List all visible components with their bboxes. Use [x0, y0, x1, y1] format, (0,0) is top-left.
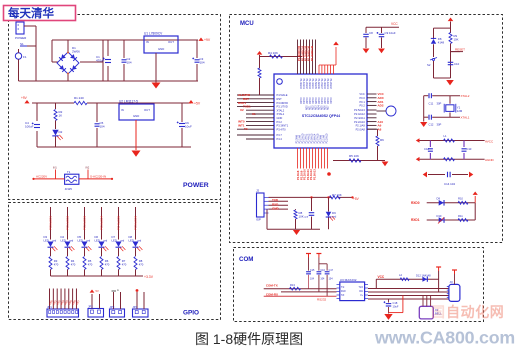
svg-text:GND: GND [158, 47, 164, 51]
svg-text:每天清华: 每天清华 [8, 6, 54, 20]
svg-text:JP3: JP3 [110, 305, 115, 309]
svg-text:X2: X2 [240, 108, 244, 112]
svg-text:www.CA800.com: www.CA800.com [374, 328, 515, 348]
svg-text:AC220V: AC220V [36, 175, 47, 179]
svg-text:4148: 4148 [438, 40, 445, 44]
svg-text:XTAL2: XTAL2 [277, 108, 285, 112]
svg-text:图 1-8硬件原理图: 图 1-8硬件原理图 [195, 331, 303, 347]
svg-text:470: 470 [71, 263, 76, 267]
svg-text:P4.4: P4.4 [277, 137, 283, 141]
svg-text:+9V: +9V [204, 38, 211, 42]
svg-text:T0: T0 [244, 127, 248, 131]
svg-text:P2.3/A11: P2.3/A11 [354, 116, 365, 120]
svg-text:IN2: IN2 [86, 167, 90, 170]
svg-text:CEX3: CEX3 [308, 98, 311, 105]
svg-text:P4.5/ALE: P4.5/ALE [277, 93, 288, 97]
svg-text:T1: T1 [67, 170, 71, 174]
svg-text:P0.2: P0.2 [359, 104, 365, 108]
svg-text:PC1/LED2: PC1/LED2 [66, 215, 70, 230]
svg-text:CEX1: CEX1 [320, 98, 323, 105]
svg-text:COM: COM [239, 256, 253, 263]
svg-text:P1.1/AD1: P1.1/AD1 [302, 79, 305, 90]
svg-text:自动化网: 自动化网 [446, 304, 504, 320]
svg-text:RXD1: RXD1 [411, 218, 420, 222]
svg-text:CEX4: CEX4 [329, 98, 332, 105]
svg-text:RXD0: RXD0 [411, 201, 420, 205]
svg-text:C7: C7 [305, 215, 309, 219]
svg-text:OUT: OUT [144, 108, 150, 112]
svg-text:10uF: 10uF [185, 125, 192, 129]
svg-text:A: A [117, 288, 119, 292]
svg-text:R7 10K: R7 10K [332, 193, 342, 197]
svg-text:D10: D10 [437, 214, 442, 218]
svg-text:10K: 10K [299, 214, 304, 218]
svg-text:L2: L2 [399, 273, 402, 277]
svg-text:CEX0: CEX0 [317, 98, 320, 105]
svg-text:C11: C11 [429, 102, 434, 106]
svg-text:R11: R11 [458, 214, 463, 218]
svg-text:104: 104 [100, 125, 105, 129]
svg-text:U1 L7809CV: U1 L7809CV [144, 32, 163, 36]
svg-text:AD1: AD1 [309, 105, 312, 110]
svg-text:P1.1/AD1: P1.1/AD1 [326, 79, 329, 90]
svg-text:R4 10K: R4 10K [268, 51, 278, 55]
svg-text:C15: C15 [310, 269, 315, 272]
svg-text:AD5: AD5 [321, 105, 324, 110]
svg-text:R1O: R1O [341, 291, 346, 293]
svg-text:470: 470 [122, 263, 127, 267]
svg-text:VCC: VCC [359, 92, 365, 96]
svg-text:C17: C17 [329, 269, 334, 272]
svg-text:J3: J3 [450, 280, 453, 284]
svg-text:X1: X1 [252, 112, 256, 116]
svg-text:PC5/LED6: PC5/LED6 [134, 215, 138, 230]
svg-text:P2.0/A8: P2.0/A8 [356, 127, 366, 131]
svg-text:GND: GND [272, 207, 280, 211]
svg-text:470: 470 [105, 263, 110, 267]
svg-text:R1 240: R1 240 [74, 96, 84, 100]
svg-text:IN: IN [146, 40, 149, 44]
svg-text:100uF: 100uF [25, 125, 34, 129]
svg-text:104: 104 [200, 61, 205, 65]
svg-text:VCC: VCC [378, 275, 385, 279]
svg-text:ISP: ISP [256, 218, 261, 222]
svg-text:P1.6/AD6: P1.6/AD6 [317, 79, 320, 90]
svg-text:S1: S1 [20, 42, 24, 46]
svg-text:R10: R10 [458, 197, 463, 201]
svg-text:C12: C12 [424, 147, 429, 151]
svg-text:IN1: IN1 [53, 167, 57, 170]
svg-text:IN: IN [121, 108, 124, 112]
svg-text:P3.4/T0: P3.4/T0 [277, 127, 287, 131]
svg-text:XTAL2: XTAL2 [461, 94, 470, 98]
svg-text:AD2: AD2 [378, 104, 384, 108]
svg-text:XTAL1: XTAL1 [461, 116, 470, 120]
svg-text:CEX5: CEX5 [314, 98, 317, 105]
svg-text:AVCC: AVCC [485, 140, 494, 144]
svg-text:C14 104: C14 104 [444, 182, 455, 186]
svg-text:2W06: 2W06 [72, 50, 80, 54]
svg-text:MCU: MCU [240, 21, 254, 27]
svg-text:AD2: AD2 [312, 105, 315, 110]
svg-text:CEX1: CEX1 [302, 98, 305, 105]
svg-text:1K: 1K [59, 114, 63, 118]
svg-text:P1.5/AD5: P1.5/AD5 [314, 79, 317, 90]
svg-text:F1: F1 [23, 55, 27, 59]
svg-text:CEX3: CEX3 [326, 98, 329, 105]
svg-text:P0.0: P0.0 [359, 96, 365, 100]
svg-text:JP2: JP2 [88, 305, 93, 309]
svg-text:OUT: OUT [168, 40, 174, 44]
svg-text:AD6: AD6 [324, 105, 327, 110]
svg-text:RS232: RS232 [317, 298, 327, 302]
svg-text:COM-TX: COM-TX [266, 284, 278, 288]
svg-text:P1.2/AD2: P1.2/AD2 [329, 79, 332, 90]
svg-text:AGND: AGND [485, 158, 495, 162]
svg-text:AD7: AD7 [327, 105, 330, 110]
svg-text:P3.7: P3.7 [277, 133, 283, 137]
svg-text:CEX2: CEX2 [305, 98, 308, 105]
svg-text:P2.4/A12: P2.4/A12 [354, 112, 365, 116]
svg-text:P1.0/AD0: P1.0/AD0 [323, 79, 326, 90]
svg-text:R6: R6 [380, 138, 384, 142]
svg-text:U2 LM1117-5: U2 LM1117-5 [119, 100, 138, 104]
svg-text:C10: C10 [454, 62, 460, 66]
svg-text:GPIO: GPIO [183, 310, 199, 317]
svg-text:104: 104 [310, 278, 315, 281]
svg-text:TXD1: TXD1 [243, 105, 251, 109]
svg-text:PC4/LED5: PC4/LED5 [117, 215, 121, 230]
svg-text:P2.2/A10: P2.2/A10 [354, 120, 365, 124]
svg-text:30P: 30P [437, 123, 442, 127]
svg-text:12M: 12M [457, 109, 463, 113]
svg-text:D9: D9 [437, 197, 441, 201]
svg-text:30P: 30P [437, 102, 442, 106]
svg-text:+5V: +5V [353, 197, 360, 201]
svg-text:104: 104 [329, 278, 334, 281]
svg-text:10K: 10K [454, 38, 459, 42]
svg-text:JP1: JP1 [47, 305, 52, 309]
svg-text:AD3: AD3 [315, 105, 318, 110]
svg-text:T1O: T1O [359, 287, 364, 289]
svg-text:P2.2/A10: P2.2/A10 [325, 133, 328, 144]
svg-text:AD4: AD4 [318, 105, 321, 110]
svg-text:C8: C8 [369, 31, 373, 35]
svg-text:C9 10uF: C9 10uF [385, 31, 396, 35]
svg-text:P3.3/INT1: P3.3/INT1 [277, 124, 289, 128]
svg-text:P1.4/AD4: P1.4/AD4 [311, 79, 314, 90]
svg-text:S2: S2 [427, 63, 431, 67]
svg-text:4N25: 4N25 [65, 187, 73, 191]
svg-text:GND: GND [277, 116, 283, 120]
svg-text:P1.3/AD3: P1.3/AD3 [308, 79, 311, 90]
svg-text:P0.1: P0.1 [359, 100, 365, 104]
svg-text:104: 104 [127, 61, 132, 65]
svg-text:P3.2: P3.2 [277, 120, 283, 124]
svg-text:R5 10K: R5 10K [349, 154, 359, 158]
svg-text:470: 470 [54, 263, 59, 267]
svg-text:5V: 5V [96, 289, 99, 293]
svg-text:P1.2/AD2: P1.2/AD2 [305, 79, 308, 90]
svg-text:D2: D2 [59, 130, 63, 134]
svg-text:VCC: VCC [391, 22, 398, 26]
svg-text:PC0/LED1: PC0/LED1 [49, 215, 53, 230]
svg-text:P1.7/AD7: P1.7/AD7 [320, 79, 323, 90]
svg-text:P1.0/AD0: P1.0/AD0 [299, 79, 302, 90]
svg-text:国: 国 [431, 304, 445, 320]
svg-text:PC2/LED3: PC2/LED3 [83, 215, 87, 230]
svg-text:AD0: AD0 [306, 105, 309, 110]
svg-text:P1.4/ADC40: P1.4/ADC40 [310, 45, 314, 61]
svg-text:J2: J2 [256, 189, 260, 193]
svg-text:red: red [332, 214, 337, 218]
svg-text:+9V: +9V [21, 96, 28, 100]
svg-text:XTAL1: XTAL1 [277, 112, 285, 116]
svg-text:10uF: 10uF [393, 304, 399, 308]
svg-text:POWER: POWER [183, 182, 209, 189]
svg-text:STC12C5A60S2 QFP44: STC12C5A60S2 QFP44 [302, 114, 340, 118]
svg-text:RST: RST [277, 97, 283, 101]
svg-text:PC3/LED4: PC3/LED4 [100, 215, 104, 230]
svg-text:470: 470 [88, 263, 93, 267]
svg-text:P2.5/A13: P2.5/A13 [354, 108, 365, 112]
svg-text:L1: L1 [444, 134, 448, 138]
svg-text:470: 470 [139, 263, 144, 267]
svg-text:CEX4: CEX4 [311, 98, 314, 105]
svg-text:R1I: R1I [359, 291, 363, 293]
svg-text:CEX2: CEX2 [323, 98, 326, 105]
svg-text:P2.5/A13: P2.5/A13 [313, 169, 317, 180]
svg-text:D12 1N4148: D12 1N4148 [416, 274, 431, 278]
svg-text:470uF: 470uF [96, 59, 105, 63]
svg-text:+3.3V: +3.3V [144, 275, 154, 279]
svg-text:RESET: RESET [455, 47, 465, 51]
svg-text:T1I: T1I [341, 287, 345, 289]
svg-text:GND: GND [133, 114, 139, 118]
svg-text:POWER: POWER [15, 36, 27, 40]
svg-text:JP4: JP4 [133, 305, 138, 309]
svg-text:C12: C12 [429, 123, 434, 127]
svg-text:U3 MAX232: U3 MAX232 [340, 278, 357, 282]
svg-text:P3.1/TXD: P3.1/TXD [277, 105, 288, 109]
svg-text:C13: C13 [467, 147, 472, 151]
svg-text:CEX0: CEX0 [299, 98, 302, 105]
svg-text:COM-RX: COM-RX [266, 292, 278, 296]
svg-text:P2.1/A9: P2.1/A9 [356, 124, 366, 128]
svg-text:A8: A8 [378, 127, 382, 131]
svg-text:T2I: T2I [341, 295, 345, 297]
svg-text:S-AC220-IN: S-AC220-IN [90, 175, 106, 179]
svg-text:+5V: +5V [194, 102, 201, 106]
svg-text:R13: R13 [290, 283, 295, 287]
svg-text:P3.0/RXD: P3.0/RXD [277, 101, 289, 105]
svg-text:C16: C16 [320, 269, 325, 272]
svg-text:104: 104 [320, 278, 325, 281]
